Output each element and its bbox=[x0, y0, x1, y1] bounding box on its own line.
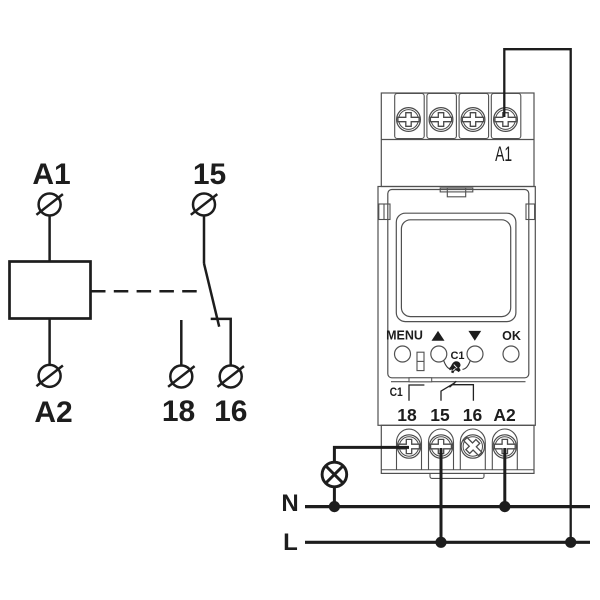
svg-text:C1: C1 bbox=[450, 350, 464, 362]
bottom foot tab bbox=[430, 473, 484, 478]
hand pointer curve left bbox=[444, 360, 452, 369]
wire lamp to N bbox=[333, 487, 336, 507]
wire 15 to L bbox=[440, 448, 443, 542]
button down bbox=[467, 346, 483, 362]
top screw 4 (A1) bbox=[494, 108, 518, 132]
bottom screw 16 (X slot) bbox=[460, 434, 485, 459]
bottom terminal cell 4 bbox=[492, 429, 517, 470]
svg-text:18: 18 bbox=[397, 405, 417, 425]
svg-text:A1: A1 bbox=[495, 142, 512, 166]
coil K1 bbox=[10, 262, 91, 319]
wire coil to A2 bbox=[48, 319, 51, 365]
device top terminal block outline bbox=[381, 93, 534, 187]
svg-text:16: 16 bbox=[463, 405, 483, 425]
terminal 15 bbox=[191, 194, 218, 216]
device bottom terminal block outline bbox=[381, 425, 534, 473]
front face lower edge line bbox=[391, 381, 526, 383]
right side clip bbox=[526, 204, 535, 220]
top clip tab bbox=[440, 188, 473, 197]
bottom screw 15 bbox=[429, 435, 452, 458]
junction lamp-N bbox=[329, 501, 340, 512]
bottom terminal cell 3 bbox=[460, 429, 485, 470]
net N line bbox=[305, 505, 590, 508]
svg-text:15: 15 bbox=[430, 405, 450, 425]
top terminal cell 3 bbox=[459, 94, 489, 139]
wire 18 stub bbox=[180, 320, 183, 366]
terminal A1 bbox=[36, 194, 63, 216]
top screw 2 bbox=[429, 108, 453, 132]
band bracket over 18 bbox=[409, 385, 424, 401]
bottom terminal cell 1 bbox=[397, 429, 422, 470]
svg-text:18: 18 bbox=[162, 395, 195, 428]
svg-text:A1: A1 bbox=[32, 158, 70, 191]
hand press icon bbox=[449, 361, 461, 373]
bottom screw 18 bbox=[397, 435, 420, 458]
LCD display outer bbox=[396, 213, 516, 321]
band switch symbol bbox=[441, 381, 473, 401]
button OK bbox=[503, 346, 519, 362]
device mid housing outline bbox=[378, 187, 535, 426]
terminal A2 bbox=[36, 365, 63, 387]
button label down arrow bbox=[468, 331, 481, 341]
svg-text:MENU: MENU bbox=[386, 329, 423, 343]
wire 18 to lamp bbox=[334, 447, 409, 462]
button label up arrow bbox=[432, 331, 445, 341]
bottom small tab bbox=[409, 378, 432, 382]
junction A2-N bbox=[499, 501, 510, 512]
terminal 16 bbox=[218, 366, 245, 388]
left side clip bbox=[379, 204, 390, 220]
svg-text:C1: C1 bbox=[390, 385, 403, 399]
hand pointer curve right bbox=[463, 360, 471, 369]
top terminal cell 2 bbox=[427, 94, 457, 139]
top terminal cell 1 bbox=[395, 94, 425, 139]
svg-text:OK: OK bbox=[502, 329, 521, 343]
wire 15 to pivot bbox=[203, 216, 206, 264]
wire A1 to coil bbox=[48, 216, 51, 262]
device front face bbox=[388, 190, 529, 378]
button MENU bbox=[395, 346, 411, 362]
terminal 18 bbox=[168, 366, 195, 388]
contact 16 hook bbox=[211, 319, 231, 366]
dashed actuator link bbox=[91, 290, 204, 293]
bottom screw A2 bbox=[493, 435, 516, 458]
lamp E1 bbox=[322, 462, 347, 487]
svg-text:A2: A2 bbox=[34, 396, 72, 429]
svg-text:L: L bbox=[283, 529, 298, 556]
contact blade 15 bbox=[204, 264, 219, 327]
junction supply-L bbox=[565, 537, 576, 548]
slider switch bbox=[417, 352, 424, 370]
net L line bbox=[305, 541, 590, 544]
bottom cells base line bbox=[381, 469, 534, 471]
button up bbox=[431, 346, 447, 362]
wire A1 supply (top run) bbox=[504, 49, 570, 542]
LCD display inner bbox=[401, 220, 510, 317]
bottom terminal cell 2 bbox=[429, 429, 454, 470]
wire A2 to N bbox=[503, 448, 506, 507]
top screw 3 bbox=[461, 108, 485, 132]
junction 15-L bbox=[435, 537, 446, 548]
top screw 1 bbox=[397, 108, 421, 132]
svg-text:16: 16 bbox=[214, 395, 247, 428]
top terminal cell 4 bbox=[491, 94, 521, 139]
svg-text:A2: A2 bbox=[493, 405, 516, 425]
svg-text:15: 15 bbox=[193, 158, 226, 191]
svg-text:N: N bbox=[281, 490, 298, 517]
